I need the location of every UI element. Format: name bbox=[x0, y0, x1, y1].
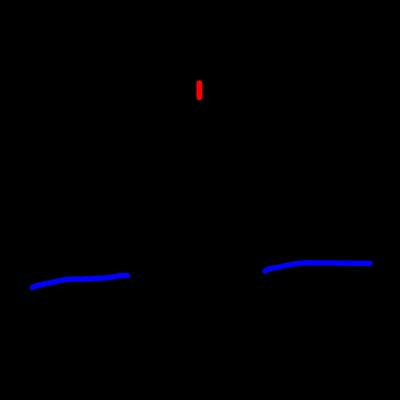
red stroke (vertical dash, top center) bbox=[196, 83, 202, 97]
blue stroke right (curved then flat line, lower right) bbox=[265, 263, 370, 271]
blue stroke left (rising line, lower left) bbox=[33, 276, 128, 288]
